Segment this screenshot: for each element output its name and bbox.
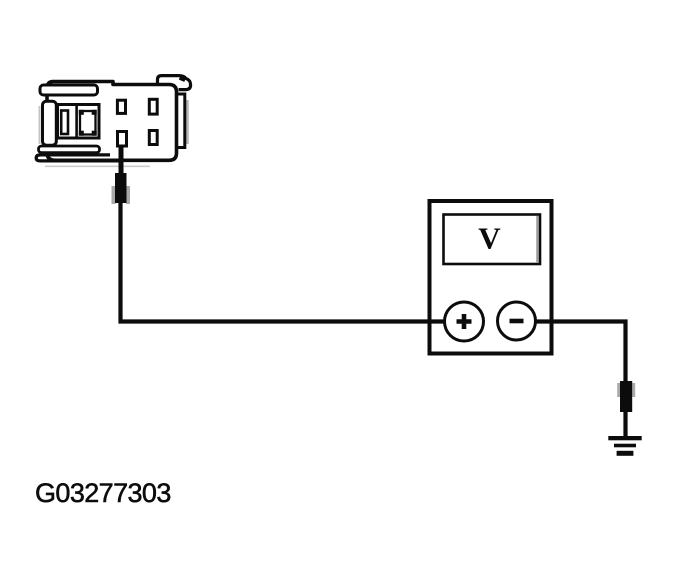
svg-text:G03277303: G03277303 <box>35 478 171 508</box>
svg-text:V: V <box>478 221 501 256</box>
